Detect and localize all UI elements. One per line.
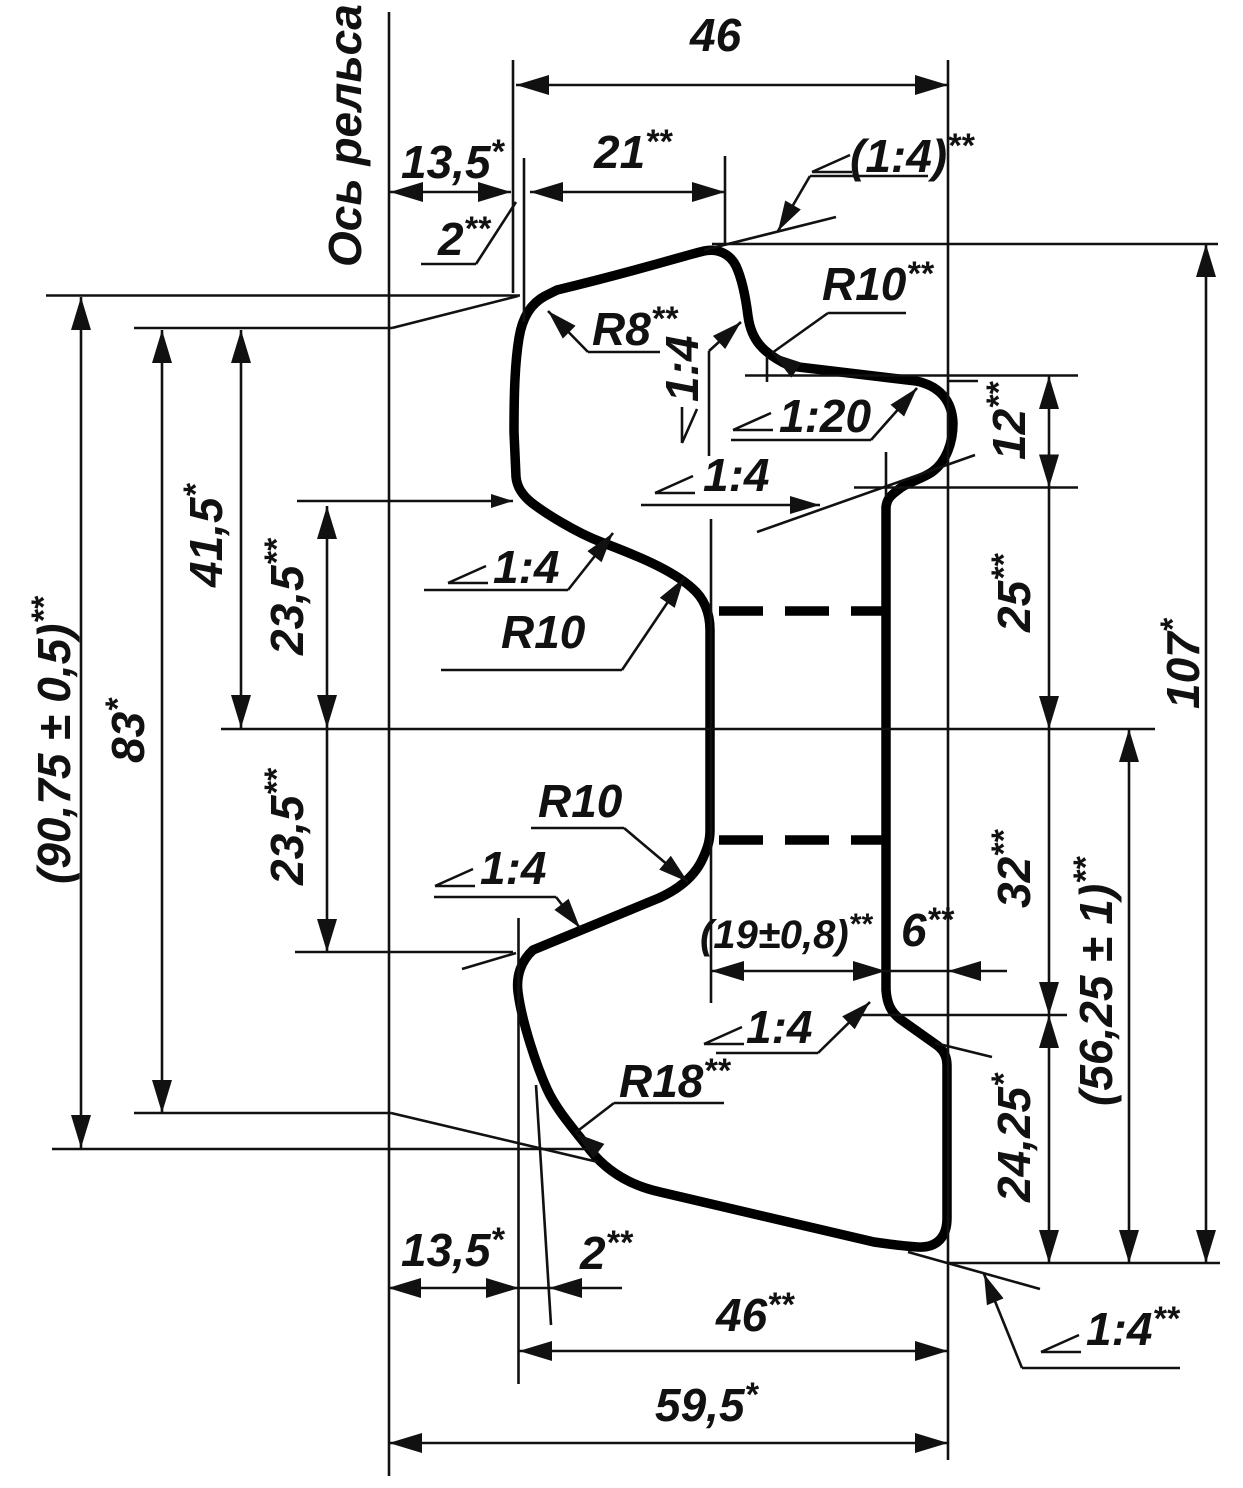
svg-text:59,5*: 59,5* (655, 1376, 760, 1431)
small leader y=952 end (462, 953, 516, 969)
svg-text:41,5*: 41,5* (177, 482, 232, 588)
svg-text:1:4: 1:4 (703, 449, 769, 501)
extension line x=711 (web left) (710, 519, 713, 1003)
axis line (Ось рельса) (388, 12, 391, 1476)
short reference tick y=381 right of ear (948, 380, 978, 383)
dimension 46 bottom (519, 1350, 948, 1353)
tangent of 1:4 top surface (704, 217, 836, 250)
dimension 59,5 (389, 1442, 948, 1445)
svg-text:(56,25 ± 1)**: (56,25 ± 1)** (1067, 856, 1122, 1106)
dimension 23,5 upper (326, 506, 329, 729)
hidden contour dashed line lower (719, 835, 886, 845)
svg-text:R10: R10 (538, 775, 623, 827)
svg-text:1:4: 1:4 (656, 336, 708, 402)
reference line y=244 rail apex (712, 243, 1218, 246)
extension line x=948 long right (947, 60, 950, 1460)
reference line y=328 (134, 327, 392, 330)
reference line y=1263 foot bottom (948, 1262, 1220, 1265)
reference line y=1149 (90.75 bottom) (52, 1148, 588, 1151)
dimension (19±0,8) (711, 970, 886, 973)
svg-text:(19±0,8)**: (19±0,8)** (700, 908, 873, 957)
extension line x=518.5 bottom (517, 918, 520, 1384)
reference line y=501 (23.5 top) (297, 500, 513, 503)
dimension 41,5 (240, 330, 243, 728)
extension tick x=767 at 1:20 start (766, 356, 769, 382)
dimension 83 (161, 330, 164, 1113)
svg-text:1:4: 1:4 (493, 541, 559, 593)
dimension 107 (1205, 244, 1208, 1263)
dimension 21 top (530, 191, 725, 194)
reference line y=1113 (83 bottom) (134, 1112, 391, 1115)
dimension 2 bottom (519, 1287, 622, 1290)
svg-text:(90,75 ± 0,5)**: (90,75 ± 0,5)** (25, 595, 80, 884)
reference line y=375.5 (1:20 / 12 top) (745, 374, 1078, 377)
extension line x=524 (2mm) (523, 158, 526, 322)
svg-text:R10: R10 (501, 606, 586, 658)
rail profile outline (514, 250, 953, 1247)
reference line y=952 (23.5 bottom) (295, 951, 513, 954)
extension line x=513 top (512, 60, 515, 293)
dimension (56,25±1) (1128, 729, 1131, 1263)
reference line y=487.5 (12 bottom) (854, 486, 1078, 489)
tangent of web-foot slope (935, 1043, 992, 1057)
reference line y=295.5 head corner (46, 294, 520, 297)
dimension 24,25 (1048, 1015, 1051, 1263)
dimension 6 (886, 970, 1007, 973)
leader to foot R18 corner (391, 1113, 598, 1162)
extension line x=725 (21 right) (724, 156, 727, 246)
reference line y=1015 (32 bottom) (848, 1014, 1067, 1017)
dimension 13,5 bottom (388, 1287, 519, 1290)
slanted extension of foot left edge (536, 1085, 551, 1325)
svg-text:1:4: 1:4 (480, 842, 546, 894)
svg-text:46: 46 (689, 9, 742, 61)
svg-text:1:4: 1:4 (746, 1001, 812, 1053)
hidden contour dashed line upper (719, 606, 886, 616)
svg-text:13,5*: 13,5* (401, 133, 506, 188)
dimension 23,5 lower (326, 729, 329, 952)
dimension 12 (1048, 376, 1051, 488)
svg-text:24,25*: 24,25* (985, 1072, 1040, 1203)
svg-text:1:20: 1:20 (779, 390, 871, 442)
extension tick x=886 (web right) (885, 452, 888, 497)
mid reference line y=729 (221, 728, 1155, 731)
dimension 32 (1048, 729, 1051, 1015)
small arrow y=501 (491, 494, 513, 508)
dimension 25 (1048, 488, 1051, 730)
svg-text:Ось рельса: Ось рельса (319, 4, 371, 267)
tangent of 1:4 head underside (757, 455, 975, 532)
leader axis to head corner (392, 296, 518, 328)
dimension 13,5 top (390, 191, 511, 194)
tangent of foot bottom 1:4 (908, 1252, 1040, 1289)
dimension (90,75±0,5) (80, 297, 83, 1148)
dimension 46 top (516, 84, 948, 87)
svg-text:13,5*: 13,5* (401, 1221, 506, 1276)
